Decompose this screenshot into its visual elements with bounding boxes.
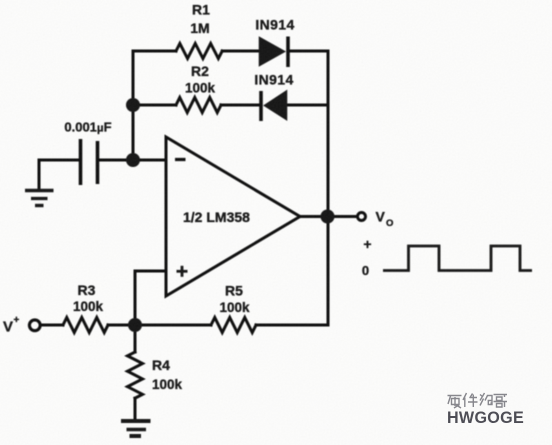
wire: R4 upper lead: [134, 325, 137, 352]
char 哥: [494, 395, 508, 408]
wire: R1 to D1: [222, 50, 260, 53]
wire: D1 cathode to right rail: [288, 50, 328, 53]
wire: R5 to right rail: [256, 324, 328, 327]
resistor R1: [176, 44, 222, 59]
wire: plus input horizontal into op-amp: [135, 270, 166, 273]
diode D1 1N914: [260, 37, 289, 68]
wire: top-left horizontal to R1: [133, 50, 176, 53]
ground (left, at capacitor): [25, 191, 54, 206]
watermark: Chinese characters 硬件狗哥 (drawn strokes): [448, 393, 508, 408]
waveform: output square wave: [383, 246, 532, 271]
resistor R3: [63, 318, 108, 333]
wire: D2 anode to right rail: [286, 104, 328, 107]
capacitor C 0.001uF plates: [81, 139, 98, 185]
ground (bottom, at R4): [121, 421, 151, 436]
wire: R3 to bottom node to R5: [108, 324, 211, 327]
wire: inverting node to op-amp minus input: [133, 159, 166, 162]
diode D2 1N914 (reversed): [261, 91, 287, 121]
wire: R2 to D2: [221, 104, 261, 107]
terminal: Vo output: [358, 213, 366, 221]
wire: left vertical from R1 corner to inverting node: [132, 51, 135, 160]
terminal: V+ input: [29, 320, 40, 331]
op-amp minus input symbol: [175, 158, 186, 161]
wire: op-amp output to Vo terminal: [300, 215, 356, 218]
wire: ground to capacitor left plate: [39, 159, 78, 162]
wire: plus input vertical from bottom node: [134, 271, 137, 325]
op-amp plus input symbol: [177, 266, 188, 277]
char 狗: [480, 393, 492, 406]
resistor R4: [128, 352, 143, 398]
resistor R5: [211, 318, 256, 333]
op-amp U1 1/2 LM358: [166, 137, 300, 296]
node C: output junction on right rail: [321, 210, 335, 224]
wire: right vertical feedback rail: [327, 51, 330, 325]
wire: V+ terminal to R3: [41, 324, 64, 327]
wire: ground stem left: [38, 160, 41, 189]
node B: capacitor / inverting input junction: [126, 153, 140, 167]
wire: R4 lower lead to ground: [134, 398, 137, 420]
char 件: [463, 393, 478, 407]
node A: R2 / left rail junction: [126, 98, 140, 112]
wire: capacitor right plate to inverting node: [98, 159, 133, 162]
wire: R2 node to R2: [133, 104, 176, 107]
resistor R2: [176, 98, 221, 113]
char 硬: [448, 396, 462, 409]
node D: R3/R4/R5 bottom junction: [128, 318, 142, 332]
